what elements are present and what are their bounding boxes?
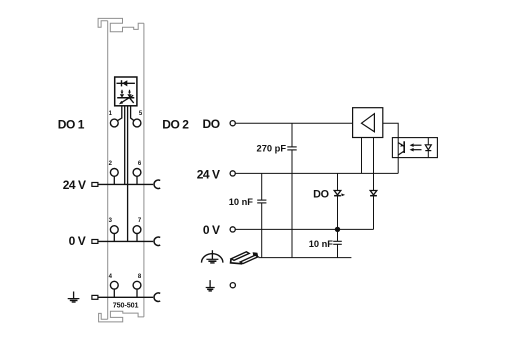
optocoupler U3 bbox=[392, 138, 437, 158]
stub pin 7 to 0V rail bbox=[136, 234, 138, 242]
stub pin 4 to earth rail bbox=[113, 289, 115, 297]
terminal contact pin 7 bbox=[133, 226, 141, 234]
svg-text:DO: DO bbox=[202, 117, 219, 131]
capacitor 270 pF branch wire bbox=[291, 123, 293, 147]
field connector 0V (module) bbox=[92, 240, 98, 244]
terminal contact pin 5 bbox=[133, 119, 141, 127]
driver op-amp U2 bbox=[353, 108, 383, 138]
terminal contact pin 6 bbox=[133, 169, 141, 177]
terminal contact pin 8 bbox=[133, 281, 141, 289]
module housing bottom profile bbox=[99, 311, 144, 322]
svg-text:DO: DO bbox=[313, 188, 329, 200]
stub pin 3 to 0V rail bbox=[113, 234, 115, 242]
connector arc 0V (module) bbox=[154, 237, 160, 246]
svg-text:750-501: 750-501 bbox=[113, 301, 139, 310]
terminal contact pin 3 bbox=[110, 226, 118, 234]
connector arc earth (module) bbox=[154, 293, 160, 302]
junction 0V / LED branch bbox=[335, 227, 340, 232]
wire earth rail (module) bbox=[98, 296, 153, 298]
wire driver right leg through diode to 0V bbox=[373, 138, 375, 230]
wire DO line bbox=[236, 122, 353, 124]
svg-text:10 nF: 10 nF bbox=[309, 239, 334, 249]
node 0V terminal bbox=[230, 227, 235, 232]
capacitor C 10 nF (24V to earth) bbox=[257, 200, 266, 203]
stub pin 2 to 24V rail bbox=[113, 176, 115, 184]
wire 24V rail (module) bbox=[98, 183, 153, 185]
wire 0V line bbox=[236, 228, 374, 230]
terminal contact pin 4 bbox=[110, 281, 118, 289]
module 750-501 housing outline top profile bbox=[98, 18, 144, 31]
wire driver input from DO line bbox=[383, 123, 398, 173]
svg-text:24 V: 24 V bbox=[197, 167, 220, 181]
field connector 24V (module) bbox=[92, 183, 98, 187]
stub pin 6 to 24V rail bbox=[136, 176, 138, 184]
diode D2 freewheel bbox=[370, 191, 377, 196]
functional earth symbol in arc bbox=[202, 250, 223, 263]
wire box to pin 5 bbox=[131, 106, 135, 121]
wire 0V rail (module) bbox=[98, 240, 153, 242]
electronics box U1 bbox=[115, 77, 137, 106]
status LEDs indicator bbox=[117, 90, 134, 104]
module housing right body line bbox=[143, 23, 145, 317]
capacitor 10 nF branch wire (24V) bbox=[261, 173, 263, 200]
wire box to 0V rail bbox=[127, 106, 129, 241]
capacitor 10 nF branch wire (0V) bbox=[337, 229, 339, 241]
module housing left body line bbox=[107, 21, 109, 319]
terminal contact pin 1 bbox=[110, 119, 118, 127]
wire 24V line bbox=[236, 172, 399, 174]
node DO terminal bbox=[230, 121, 235, 126]
LED DO status bbox=[334, 191, 345, 197]
svg-text:270 pF: 270 pF bbox=[257, 143, 287, 153]
stub pin 8 to earth rail bbox=[136, 289, 138, 297]
ground symbol (system earth) bbox=[206, 280, 215, 291]
wire box to pin 1 bbox=[117, 106, 121, 121]
svg-text:DO 1: DO 1 bbox=[58, 118, 85, 132]
node 24V terminal bbox=[230, 171, 235, 176]
svg-text:DO 2: DO 2 bbox=[162, 118, 189, 132]
DIN rail symbol bbox=[231, 252, 259, 264]
wire earth bus line bbox=[259, 257, 352, 259]
capacitor C 10 nF (0V to earth) bbox=[333, 241, 342, 244]
diode D1 (reverse polarity protection) bbox=[117, 80, 135, 86]
LED emitter in optocoupler bbox=[425, 138, 431, 158]
wire driver output left leg to 24V bbox=[361, 138, 363, 174]
field connector earth (module) bbox=[92, 295, 98, 299]
light arrows optocoupler bbox=[410, 143, 422, 151]
ground symbol (module earth terminal) bbox=[68, 292, 80, 303]
capacitor 270 pF bbox=[287, 147, 296, 150]
svg-text:0 V: 0 V bbox=[203, 223, 220, 237]
svg-text:10 nF: 10 nF bbox=[229, 197, 254, 207]
wire LED DO branch bbox=[337, 173, 339, 229]
svg-text:24 V: 24 V bbox=[63, 178, 86, 192]
wire through optocoupler bbox=[397, 138, 399, 158]
terminal contact pin 2 bbox=[110, 169, 118, 177]
wire box to 24V rail bbox=[124, 106, 126, 184]
svg-text:0 V: 0 V bbox=[69, 234, 86, 248]
connector arc 24V (module) bbox=[154, 180, 160, 189]
phototransistor Q1 bbox=[398, 141, 404, 155]
node earth terminal bbox=[230, 283, 235, 288]
